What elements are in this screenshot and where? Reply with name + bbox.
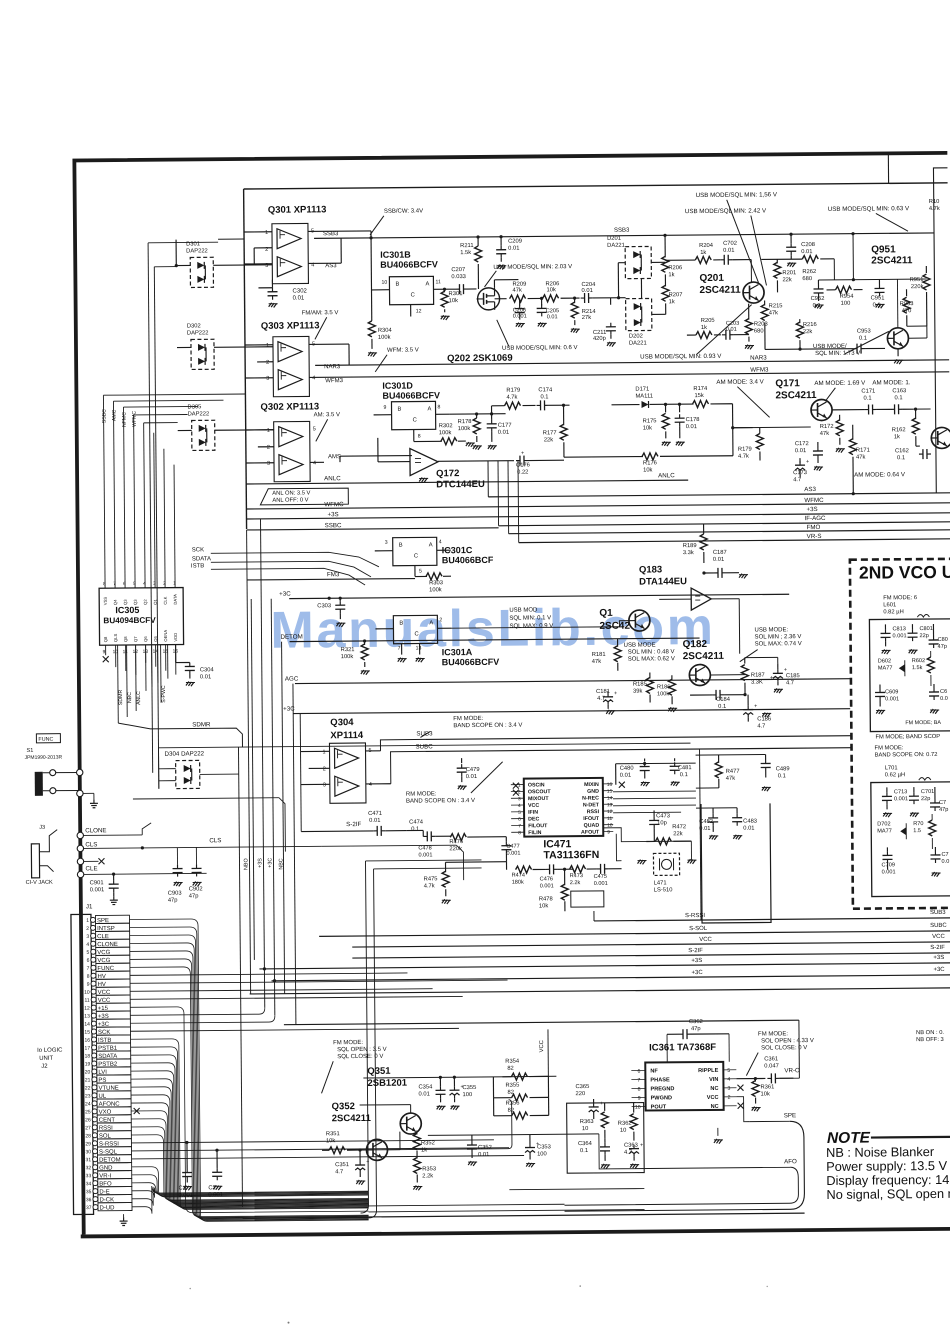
- svg-text:R172: R172: [820, 424, 834, 430]
- svg-text:Q3: Q3: [133, 599, 138, 605]
- outer frame border: [74, 153, 950, 1235]
- svg-text:C178: C178: [686, 417, 700, 423]
- svg-text:C471: C471: [368, 811, 382, 817]
- svg-text:B: B: [399, 543, 403, 549]
- svg-text:SOL MAX: 0.74 V: SOL MAX: 0.74 V: [755, 641, 802, 647]
- svg-text:C302: C302: [292, 288, 307, 294]
- svg-text:1k: 1k: [668, 272, 674, 278]
- svg-text:22p: 22p: [921, 796, 930, 802]
- svg-text:ISTB: ISTB: [191, 563, 204, 569]
- svg-text:8: 8: [103, 581, 106, 587]
- svg-text:J2: J2: [41, 1064, 48, 1070]
- svg-text:0.01: 0.01: [547, 314, 558, 320]
- wire left stubs: [103, 394, 245, 395]
- svg-text:SOL MIN ; 2.36 V: SOL MIN ; 2.36 V: [755, 634, 802, 640]
- svg-text:1: 1: [173, 581, 176, 587]
- wire bottom band risers: [366, 869, 377, 1218]
- svg-text:A: A: [425, 281, 429, 287]
- svg-text:1k: 1k: [421, 1147, 427, 1153]
- svg-text:10: 10: [381, 280, 387, 286]
- svg-text:USB MOD: USB MOD: [509, 607, 538, 613]
- svg-text:+: +: [536, 1141, 539, 1147]
- if unit enclosure box: [701, 803, 771, 923]
- svg-text:D-UD: D-UD: [99, 1205, 115, 1211]
- svg-text:R363: R363: [580, 1119, 594, 1125]
- svg-text:+3C: +3C: [267, 858, 273, 868]
- svg-text:10k: 10k: [643, 467, 652, 473]
- svg-text:100k: 100k: [439, 430, 452, 436]
- svg-text:D702: D702: [877, 821, 890, 827]
- svg-text:26: 26: [85, 1117, 91, 1123]
- svg-text:3.3k: 3.3k: [683, 550, 694, 556]
- svg-text:CLS: CLS: [85, 841, 97, 848]
- svg-text:C901: C901: [90, 880, 104, 886]
- bus staircase left ends: [497, 461, 500, 526]
- svg-text:9: 9: [638, 1096, 641, 1102]
- svg-text:AM MODE: 1.69 V: AM MODE: 1.69 V: [814, 380, 866, 387]
- svg-text:C478: C478: [418, 845, 431, 851]
- svg-text:2: 2: [163, 581, 166, 587]
- svg-text:D202: D202: [629, 334, 643, 340]
- svg-text:3: 3: [267, 461, 270, 467]
- svg-text:CLE: CLE: [86, 865, 98, 872]
- svg-text:A: A: [429, 620, 433, 626]
- svg-text:FM MODE:: FM MODE:: [874, 745, 903, 751]
- wire VCC top IC471: [616, 762, 696, 765]
- svg-text:SSB3: SSB3: [323, 231, 339, 237]
- svg-text:C186: C186: [757, 716, 771, 722]
- svg-text:3: 3: [727, 1086, 730, 1092]
- svg-text:Q4: Q4: [113, 599, 118, 605]
- svg-text:32: 32: [86, 1165, 92, 1171]
- svg-text:SDATA: SDATA: [192, 556, 211, 562]
- svg-text:2ND VCO UN: 2ND VCO UN: [859, 562, 950, 583]
- svg-text:R175: R175: [643, 418, 657, 424]
- svg-text:C355: C355: [462, 1085, 476, 1091]
- svg-text:8: 8: [638, 1087, 641, 1093]
- svg-text:SQL MAX: 0.9 V: SQL MAX: 0.9 V: [509, 623, 553, 629]
- svg-text:C365: C365: [575, 1084, 589, 1090]
- svg-text:2: 2: [728, 1095, 731, 1101]
- wire Q202 drain: [493, 280, 495, 288]
- svg-text:R302: R302: [439, 423, 453, 429]
- wire bottom band to right: [368, 1204, 564, 1206]
- svg-text:2: 2: [86, 926, 89, 932]
- svg-text:0.1: 0.1: [680, 772, 688, 778]
- svg-text:0.01: 0.01: [498, 430, 509, 436]
- svg-text:C713: C713: [894, 789, 907, 795]
- filter L471 LS-510: [653, 853, 679, 875]
- svg-text:BU4066BCFV: BU4066BCFV: [442, 657, 500, 668]
- svg-text:Io LOGIC: Io LOGIC: [37, 1048, 63, 1054]
- wire vcc q351: [363, 1076, 556, 1078]
- svg-text:Q951: Q951: [871, 244, 896, 255]
- svg-text:0.01: 0.01: [293, 295, 305, 301]
- svg-text:0.001: 0.001: [885, 696, 899, 702]
- svg-text:SQL OPEN : 3.5 V: SQL OPEN : 3.5 V: [337, 1047, 387, 1053]
- svg-text:Q304: Q304: [330, 717, 354, 728]
- wire J1 fanout bundle: [129, 917, 368, 1222]
- svg-text:4.7k: 4.7k: [424, 883, 435, 889]
- svg-text:Q3: Q3: [123, 599, 128, 605]
- bus S-2IF: [352, 953, 950, 958]
- wire bottom right verticals: [700, 749, 701, 920]
- svg-text:0.1: 0.1: [580, 1148, 588, 1154]
- fet Q202 2SK1069: [477, 288, 499, 310]
- svg-text:USB MODE/SQL MIN: 2.42 V: USB MODE/SQL MIN: 2.42 V: [685, 207, 767, 215]
- svg-text:NAR3: NAR3: [750, 354, 767, 361]
- diode pack D202 DA221: [626, 298, 652, 330]
- svg-text:6: 6: [123, 581, 126, 587]
- svg-text:ANLC: ANLC: [658, 472, 675, 479]
- svg-text:C903: C903: [168, 891, 182, 897]
- svg-text:Q6: Q6: [143, 636, 148, 642]
- bus unnamed: [250, 988, 950, 994]
- svg-text:420p: 420p: [593, 336, 606, 342]
- svg-text:35: 35: [86, 1189, 92, 1195]
- svg-text:47p: 47p: [939, 807, 948, 813]
- svg-text:0.1: 0.1: [718, 704, 726, 710]
- svg-text:AFO: AFO: [784, 1158, 797, 1165]
- svg-text:1: 1: [266, 343, 269, 349]
- svg-text:C: C: [411, 293, 415, 299]
- svg-text:14: 14: [84, 1022, 90, 1028]
- svg-text:0.01: 0.01: [723, 248, 734, 254]
- svg-text:4: 4: [369, 782, 372, 788]
- svg-text:16: 16: [607, 782, 613, 788]
- svg-text:FM MODE; BAND SCOP: FM MODE; BAND SCOP: [875, 734, 940, 741]
- transistor Q182 circle: [689, 664, 710, 685]
- svg-text:31: 31: [86, 1157, 92, 1163]
- svg-text:5: 5: [518, 810, 521, 816]
- svg-text:C207: C207: [451, 267, 465, 273]
- svg-text:VR-O: VR-O: [784, 1067, 800, 1074]
- svg-text:10k: 10k: [761, 1091, 770, 1097]
- svg-text:4: 4: [312, 375, 315, 381]
- svg-text:1.5k: 1.5k: [912, 665, 923, 671]
- svg-text:A: A: [429, 542, 433, 548]
- svg-text:0.01: 0.01: [726, 327, 737, 333]
- svg-text:R352: R352: [421, 1140, 435, 1146]
- svg-text:9: 9: [384, 405, 387, 411]
- svg-text:USB MODE/: USB MODE/: [813, 344, 847, 350]
- svg-text:0.01: 0.01: [369, 818, 380, 824]
- svg-text:11: 11: [84, 998, 89, 1004]
- svg-text:100: 100: [537, 1151, 547, 1157]
- svg-text:AMS: AMS: [328, 454, 341, 460]
- svg-text:FM MODE: 6: FM MODE: 6: [883, 595, 917, 601]
- svg-text:+3S: +3S: [933, 955, 944, 961]
- svg-text:SQL MIN: 0.1 V: SQL MIN: 0.1 V: [509, 615, 551, 621]
- svg-text:C476: C476: [540, 876, 553, 882]
- svg-text:R206: R206: [668, 265, 682, 271]
- svg-text:R361: R361: [760, 1084, 774, 1090]
- svg-text:C351: C351: [335, 1162, 349, 1168]
- svg-text:RM MODE:: RM MODE:: [406, 791, 437, 797]
- svg-text:SDMR: SDMR: [118, 690, 124, 706]
- svg-text:MIXOUT: MIXOUT: [528, 796, 549, 802]
- svg-text:21: 21: [85, 1077, 91, 1083]
- svg-text:C185: C185: [786, 673, 800, 679]
- svg-text:R205: R205: [701, 318, 715, 324]
- svg-text:0.01: 0.01: [200, 674, 211, 680]
- svg-text:AGC: AGC: [285, 676, 299, 683]
- bus line IF-AGC: [499, 522, 950, 526]
- svg-text:C701: C701: [921, 789, 934, 795]
- svg-text:5: 5: [727, 1068, 730, 1074]
- svg-text:BAND SCOPE ON : 3.4 V: BAND SCOPE ON : 3.4 V: [453, 723, 522, 730]
- wire bundle left verticals upper: [148, 243, 153, 773]
- svg-text:0.001: 0.001: [894, 796, 908, 802]
- inner unit box left: [244, 189, 247, 529]
- svg-text:USB MODE/SQL MIN: 2.03 V: USB MODE/SQL MIN: 2.03 V: [493, 264, 572, 271]
- svg-text:NC: NC: [711, 1104, 719, 1110]
- svg-text:FM MODE:: FM MODE:: [333, 1040, 363, 1046]
- svg-text:C363: C363: [624, 1143, 638, 1149]
- svg-text:VCC: VCC: [699, 937, 712, 943]
- svg-text:L701: L701: [885, 765, 898, 771]
- svg-text:SUB3: SUB3: [416, 730, 433, 737]
- vertical wires misc: [293, 684, 296, 1025]
- svg-text:47p: 47p: [168, 898, 178, 904]
- svg-text:1k: 1k: [894, 434, 900, 440]
- svg-text:C362: C362: [689, 1019, 703, 1025]
- svg-text:0.01: 0.01: [478, 1152, 489, 1158]
- vco inner box 1: [869, 619, 950, 732]
- svg-text:AM MODE: 0.64 V: AM MODE: 0.64 V: [854, 471, 906, 478]
- svg-text:3: 3: [266, 376, 269, 382]
- svg-text:9: 9: [607, 829, 610, 835]
- svg-text:Q352: Q352: [332, 1101, 355, 1112]
- svg-text:VDD: VDD: [173, 633, 178, 642]
- svg-text:+3C: +3C: [933, 967, 945, 973]
- svg-text:R177: R177: [543, 430, 557, 436]
- svg-text:SOL MAX: 0.62 V: SOL MAX: 0.62 V: [628, 656, 675, 662]
- svg-text:4.7: 4.7: [793, 477, 801, 483]
- svg-text:NF: NF: [650, 1068, 658, 1074]
- svg-text:CLK: CLK: [163, 596, 168, 604]
- svg-text:4.7k: 4.7k: [929, 206, 940, 212]
- svg-text:R207: R207: [669, 292, 683, 298]
- svg-text:22: 22: [85, 1085, 91, 1091]
- svg-text:33: 33: [86, 1173, 92, 1179]
- svg-text:C480: C480: [620, 766, 634, 772]
- svg-text:0.1: 0.1: [540, 394, 548, 400]
- paper specks: [288, 1322, 290, 1324]
- svg-text:R10: R10: [929, 199, 940, 205]
- svg-text:C7: C7: [941, 852, 948, 858]
- svg-text:34: 34: [86, 1181, 92, 1187]
- svg-text:4.7: 4.7: [757, 723, 765, 729]
- svg-text:R178: R178: [458, 419, 472, 425]
- svg-text:0.01: 0.01: [713, 557, 724, 563]
- svg-text:DA221: DA221: [607, 243, 625, 249]
- wire IC471 to bus: [593, 911, 595, 921]
- svg-text:0.1: 0.1: [894, 395, 902, 401]
- svg-text:SCK: SCK: [192, 547, 204, 553]
- svg-text:SSBC: SSBC: [325, 522, 342, 529]
- bus SUB3 line: [366, 750, 381, 752]
- svg-text:BU4094BCFV: BU4094BCFV: [103, 616, 156, 625]
- svg-text:6: 6: [637, 1069, 640, 1075]
- svg-text:8: 8: [418, 433, 421, 439]
- svg-text:12: 12: [416, 308, 422, 314]
- svg-text:10k: 10k: [539, 903, 548, 909]
- svg-text:DAP222: DAP222: [188, 411, 210, 417]
- svg-text:C: C: [413, 417, 417, 423]
- svg-text:VIN: VIN: [709, 1077, 718, 1083]
- svg-text:SQL MIN: 1.73 V: SQL MIN: 1.73 V: [815, 351, 860, 357]
- svg-text:S-2IF: S-2IF: [346, 821, 361, 828]
- svg-text:Q2: Q2: [143, 599, 148, 605]
- wire r477 line: [696, 753, 766, 756]
- wire Q951 bias: [818, 278, 926, 281]
- svg-text:6: 6: [518, 817, 521, 823]
- svg-text:30: 30: [85, 1149, 91, 1155]
- bus +3S b: [259, 963, 950, 969]
- svg-text:+: +: [614, 691, 617, 697]
- svg-text:DAP222: DAP222: [187, 330, 209, 336]
- svg-text:R301: R301: [449, 291, 463, 297]
- svg-text:8: 8: [518, 830, 521, 836]
- svg-text:R211: R211: [460, 243, 473, 249]
- svg-text:0.01: 0.01: [795, 448, 806, 454]
- svg-text:2SC42: 2SC42: [599, 621, 630, 632]
- svg-text:R204: R204: [699, 243, 714, 249]
- svg-text:3: 3: [518, 796, 521, 802]
- svg-text:47p: 47p: [938, 644, 947, 650]
- svg-text:C477: C477: [506, 844, 519, 850]
- svg-text:11: 11: [435, 279, 441, 285]
- svg-text:VCC: VCC: [528, 803, 539, 809]
- svg-text:47k: 47k: [820, 431, 829, 437]
- svg-text:CLONE: CLONE: [85, 827, 106, 834]
- wire CLS to bus: [456, 845, 463, 880]
- svg-text:47p: 47p: [691, 1026, 701, 1032]
- svg-text:4: 4: [86, 942, 89, 948]
- svg-text:R477: R477: [726, 769, 740, 775]
- svg-text:SOL CLOSE: 0 V: SOL CLOSE: 0 V: [761, 1045, 807, 1051]
- svg-text:C473: C473: [656, 813, 670, 819]
- svg-text:2SC4211: 2SC4211: [775, 390, 817, 401]
- bus +3C b: [272, 975, 950, 981]
- svg-text:VR-S: VR-S: [807, 533, 822, 540]
- svg-text:680: 680: [754, 328, 764, 334]
- inner unit box top: [244, 183, 948, 189]
- svg-text:C184: C184: [716, 697, 731, 703]
- svg-text:13: 13: [84, 1014, 90, 1020]
- svg-text:0.1: 0.1: [863, 396, 871, 402]
- svg-text:IFOUT: IFOUT: [583, 816, 600, 822]
- svg-text:WFM3: WFM3: [750, 366, 769, 373]
- svg-text:1: 1: [265, 230, 268, 236]
- svg-text:R354: R354: [505, 1059, 520, 1065]
- svg-text:82: 82: [507, 1066, 514, 1072]
- svg-text:C609: C609: [885, 689, 898, 695]
- svg-text:47k: 47k: [769, 310, 778, 316]
- svg-text:13: 13: [607, 802, 613, 808]
- bus S-SOL: [319, 931, 950, 937]
- svg-text:680: 680: [802, 276, 812, 282]
- svg-text:47k: 47k: [856, 455, 865, 461]
- svg-text:12: 12: [607, 809, 613, 815]
- vertical NBO bus lines: [238, 747, 242, 1207]
- svg-text:USB MODE/SQL MIN: 0.93 V: USB MODE/SQL MIN: 0.93 V: [640, 353, 722, 361]
- svg-text:8: 8: [438, 404, 441, 410]
- svg-text:2: 2: [266, 360, 269, 366]
- svg-text:JPM1990-2013R: JPM1990-2013R: [25, 755, 63, 761]
- svg-text:WFM3: WFM3: [325, 378, 343, 384]
- bus line +3S: [246, 513, 950, 519]
- svg-text:C80: C80: [938, 637, 948, 643]
- svg-text:47k: 47k: [726, 776, 735, 782]
- svg-text:R954: R954: [840, 294, 855, 300]
- svg-text:Q8: Q8: [103, 636, 108, 642]
- ground under switch: [76, 769, 82, 775]
- svg-text:100k: 100k: [429, 587, 442, 593]
- svg-text:L601: L601: [883, 602, 896, 608]
- svg-text:+3C: +3C: [279, 591, 291, 598]
- svg-text:100: 100: [463, 1092, 473, 1098]
- svg-text:C952: C952: [811, 296, 825, 302]
- svg-text:SOL OPEN : 4.33 V: SOL OPEN : 4.33 V: [761, 1038, 814, 1044]
- svg-text:QLS: QLS: [113, 634, 118, 643]
- svg-text:Q8: Q8: [123, 636, 128, 642]
- svg-text:AS3: AS3: [325, 263, 337, 269]
- svg-text:R162: R162: [892, 427, 906, 433]
- svg-text:USB MODE:: USB MODE:: [754, 627, 788, 633]
- svg-text:7: 7: [518, 823, 521, 829]
- wire pins Q302: [246, 429, 274, 431]
- bus line WFMC: [246, 503, 950, 509]
- svg-text:S-PWC: S-PWC: [161, 685, 167, 703]
- buffer Q172 DTC144EU: [410, 448, 438, 475]
- svg-text:FM MODE:: FM MODE:: [758, 1031, 788, 1037]
- svg-text:D305: D305: [187, 404, 201, 410]
- svg-text:17: 17: [85, 1046, 91, 1052]
- svg-text:Q172: Q172: [436, 468, 459, 479]
- svg-text:0.1: 0.1: [859, 336, 867, 342]
- svg-text:10: 10: [582, 1126, 589, 1132]
- svg-text:LS-510: LS-510: [654, 887, 673, 893]
- left wire bundle to IC305: [145, 645, 147, 691]
- svg-text:WFMC: WFMC: [132, 411, 138, 427]
- svg-text:S1: S1: [26, 748, 33, 754]
- wire SSB3 line: [308, 230, 371, 233]
- svg-text:0.1: 0.1: [778, 773, 786, 779]
- svg-text:100k: 100k: [378, 335, 391, 341]
- svg-text:WFMC: WFMC: [804, 497, 824, 504]
- svg-text:+3S: +3S: [806, 506, 817, 513]
- svg-text:+: +: [600, 1101, 603, 1107]
- svg-text:PHASE: PHASE: [650, 1077, 670, 1083]
- vco inner box 2: [871, 782, 950, 897]
- svg-text:PREGND: PREGND: [650, 1086, 674, 1092]
- svg-text:+: +: [806, 459, 809, 465]
- svg-text:NB OFF: 3: NB OFF: 3: [916, 1037, 944, 1043]
- svg-text:15k: 15k: [694, 393, 703, 399]
- svg-text:0.001: 0.001: [882, 869, 896, 875]
- wire clone cls cle: [77, 832, 83, 838]
- svg-text:+: +: [521, 451, 524, 457]
- svg-text:C172: C172: [795, 441, 809, 447]
- svg-text:3.3K: 3.3K: [751, 679, 763, 685]
- svg-text:0.62 µH: 0.62 µH: [885, 772, 905, 778]
- switch S1 FUNC: [36, 734, 60, 743]
- svg-text:FILIN: FILIN: [528, 830, 541, 836]
- svg-text:VCC: VCC: [932, 934, 945, 940]
- svg-text:C304: C304: [200, 667, 215, 673]
